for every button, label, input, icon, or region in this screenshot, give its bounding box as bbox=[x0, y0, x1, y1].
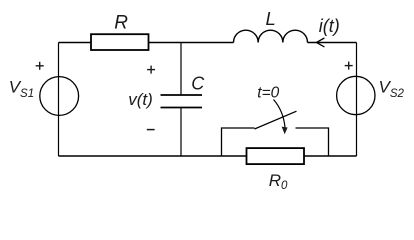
wire switch right stub bbox=[296, 128, 329, 156]
switch closing arc arrow bbox=[274, 100, 288, 135]
current arrow i(t) bbox=[316, 38, 324, 47]
label L bbox=[266, 8, 276, 29]
wire bottom-left horizontal bbox=[59, 155, 247, 157]
label VS2 bbox=[379, 77, 405, 99]
wire left vertical bbox=[58, 43, 60, 157]
svg-text:VS2: VS2 bbox=[379, 77, 405, 99]
svg-text:R: R bbox=[114, 13, 128, 34]
svg-text:L: L bbox=[266, 8, 276, 29]
svg-text:t=0: t=0 bbox=[257, 85, 279, 102]
label i(t) bbox=[319, 16, 340, 36]
wire top-middle horizontal bbox=[149, 42, 234, 44]
wire top-left horizontal bbox=[59, 42, 92, 44]
resistor R bbox=[91, 34, 149, 50]
wire capacitor bottom vertical bbox=[180, 108, 182, 157]
label t=0 bbox=[257, 85, 279, 102]
label VS1 bbox=[9, 77, 34, 99]
plus sign VS1 bbox=[36, 62, 44, 70]
voltage source VS2 bbox=[337, 76, 375, 114]
svg-text:C: C bbox=[191, 73, 205, 93]
svg-text:i(t): i(t) bbox=[319, 16, 340, 36]
svg-text:R0: R0 bbox=[269, 171, 288, 192]
voltage source VS1 bbox=[40, 77, 79, 116]
wire top-right horizontal bbox=[308, 42, 357, 44]
plus sign VS2 bbox=[345, 62, 353, 70]
plus sign capacitor bbox=[147, 66, 155, 74]
capacitor C bottom plate bbox=[161, 107, 203, 109]
label R0 bbox=[269, 171, 288, 192]
resistor R0 bbox=[247, 148, 305, 164]
capacitor C top plate bbox=[161, 94, 203, 96]
wire switch left stub bbox=[222, 128, 255, 156]
svg-text:VS1: VS1 bbox=[9, 77, 34, 99]
label C bbox=[191, 73, 205, 93]
svg-text:v(t): v(t) bbox=[128, 90, 153, 109]
switch blade bbox=[255, 111, 297, 129]
label R bbox=[114, 13, 128, 34]
label v(t) bbox=[128, 90, 153, 109]
wire bottom-right horizontal bbox=[304, 155, 357, 157]
inductor L bbox=[234, 30, 308, 42]
wire right vertical bbox=[356, 43, 358, 157]
wire capacitor top vertical bbox=[180, 43, 182, 95]
minus sign capacitor bbox=[147, 129, 155, 131]
